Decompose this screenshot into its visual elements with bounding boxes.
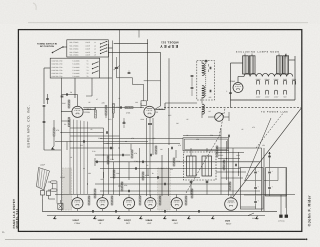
capacitor C19 [106,131,108,134]
power plug terminals [279,215,282,218]
capacitor C23 [171,147,173,150]
bottom bus 1 [42,210,277,212]
wire vertical bus x112 [112,41,114,161]
resistor R1 [53,128,55,136]
IF transformer T3 box [184,152,217,180]
driver stage box inner [184,139,227,149]
filament symbols row 2 [256,90,259,94]
wire interstage [83,107,144,109]
wire stub top [138,30,140,38]
bundle resistor R26 [68,118,70,127]
padder capacitor CP [123,122,126,124]
dashed pointer line [256,112,284,148]
tube 12SQ7 DET [123,198,134,209]
IFT T2 primary coil [202,63,204,75]
IFT T2 trimmers [209,67,211,70]
wire cluster bottom link [44,67,50,69]
capacitor C24 [235,164,237,167]
component value labels [60,97,265,181]
wire ladder h7 [100,168,240,170]
wire cap feed [269,152,271,168]
resistor R2 horizontal [125,107,133,109]
page top edge [28,22,308,24]
wire bundle from band switch [69,119,71,194]
pointer line to rectifier [232,108,302,199]
capacitor C28 [43,121,46,123]
padder resistor RP1 [51,181,58,183]
tube V2 12BA6 IF [144,106,155,117]
volume control R7 [121,182,123,191]
capacitor C14 [164,210,166,213]
filter capacitor box B2 [266,168,287,197]
capacitor C13 [115,210,117,213]
resistor R21 [216,146,218,157]
wire IFT T3 leads [190,148,192,156]
ballast resistor RB1 [243,56,249,74]
bottom bus 2 [47,215,265,217]
wire V1 top cap [77,95,79,107]
electrolytic C17 [254,187,257,189]
resistor R6 [142,172,144,180]
driver stage box outer [183,138,229,151]
electrolytic C20b [268,187,271,189]
band switch box A [67,40,109,57]
capacitor C3 [66,93,68,96]
loop trimmer capacitors [41,191,45,196]
wire ladder h2b [100,138,183,140]
tube 12SA7 CONV [72,198,83,209]
wire ladder h8 [110,177,200,179]
resistor R22 [229,182,231,190]
oscillator coil box B [50,58,99,78]
RF section box right [160,52,162,106]
wire link y128 [70,127,104,129]
wire ballast tops [244,54,246,56]
capacitor C22 [157,176,159,179]
diode tube V3 [215,113,224,122]
tuning gang shield ribbon 2 [158,168,171,210]
wire vertical bus x119 [119,30,121,196]
resistor R13 [139,196,141,205]
ground G1 [52,146,54,148]
IFT T2 secondary coil [202,86,204,98]
capacitor C26 [128,72,131,74]
capacitor C7 [96,161,98,164]
volume control switch cluster [58,203,63,209]
ballast resistor RB3 [277,56,283,74]
V2 cathode capacitor [149,117,151,122]
wire vertical bus x108 [108,44,110,194]
capacitor C10 [150,154,152,157]
dashed AVC bus [164,107,301,109]
line cord resistor coil [244,73,293,76]
wire verticals mid [103,128,105,196]
wire fil to AVC [230,100,232,108]
IFT T3 trimmers [190,181,193,183]
rectifier tube V8 [233,83,243,93]
capacitor C5 with polarity [229,92,232,94]
IFT input trimmers [191,75,194,77]
resistor R4 [113,170,115,178]
capacitor C12 [92,210,94,213]
wire ladder h10 [100,190,260,192]
junction V2 grid [140,107,141,108]
resistor R11 [94,189,96,198]
tube 50L6 OUT [171,198,182,209]
wire rails filter [261,148,263,211]
tube 12BA6 AVC [145,198,156,209]
wire diode leads [208,116,215,118]
capacitor C2 [46,98,49,100]
grid box V2 [141,101,147,106]
wire V1 grid [61,111,72,113]
grid resistor R27 [68,100,70,108]
IFT T3 secondary [202,156,212,176]
oscillator resistor R24 [113,104,115,114]
IFT T2 core [205,63,207,97]
oscillator resistor R23 [105,106,107,116]
ballast resistor RB2 [249,56,255,74]
IFT T3 primary [187,156,197,176]
plate resistor R25 [95,110,97,118]
IF transformer T2 dashed shield [197,61,215,101]
resistor R3 [107,156,109,164]
wire bus to right section [114,42,148,44]
capacitor C15 [198,210,200,213]
electrolytic C18b [254,201,257,203]
band switch contacts A [101,42,107,44]
capacitor C11 [164,183,166,186]
resistor R9 [173,158,175,166]
wire V2 plate to IFT [155,109,165,111]
wire link y121 [62,120,71,122]
band switch contacts B [93,62,99,64]
electrolytic C19b [268,171,271,173]
tube 12SK7 IF [97,198,108,209]
scan noise texture [0,0,1,1]
second IF coil L7 [202,104,204,114]
capacitor C25 [228,135,230,138]
wire IFT connections [201,61,203,64]
resistor R5 [131,150,133,158]
resistor R16 [191,189,193,198]
wire stair v113 [113,162,115,195]
resistor R12 [111,196,113,205]
wire ladder h3 [55,141,148,143]
wire ladder h3b [104,143,181,145]
IFT top cap [205,60,207,64]
capacitor C18 [83,140,85,143]
wire right rail [285,168,287,208]
capacitor C1 [43,105,46,107]
page bottom edge [5,239,95,241]
switch S1 blade [53,47,64,53]
wire box right edge down [228,151,230,196]
wire V1 plate [83,109,95,111]
pointer line mid [245,118,271,180]
schematic border frame [18,30,301,232]
detector area verticals [220,128,222,195]
pointer line to output tube [186,137,219,194]
wire filter steps [244,180,262,182]
tuning gang shield ribbon 1 [62,168,72,210]
junction dots mid [60,132,61,133]
RF section box top [108,51,161,53]
detector area horizontals [216,152,244,154]
resistor R15 [185,196,187,205]
capacitor C4 [120,106,122,109]
wire ladder h9 [95,183,230,185]
capacitor C8 [135,167,137,170]
ballast resistor RB4 [283,56,289,74]
wire ladder h4 [70,147,114,149]
bottom bus above tubes [55,194,295,196]
capacitor C6 [110,147,112,150]
wire step route [116,69,118,78]
filament symbols row 1 [256,80,259,84]
filter capacitor box B1 [241,168,264,210]
resistor R10 [88,196,90,205]
wire left column [44,149,61,151]
wire vertical drop to V2 grid [147,39,149,101]
wire pair under V2 [146,118,148,196]
wire ladder h5 [95,154,130,156]
tube 35Z5 rectifier output [225,198,238,211]
wire padder links [52,183,54,189]
loop antenna LA [37,168,50,191]
capacitor C21 [142,161,144,164]
grounds bottom [54,216,56,218]
capacitor C20 [122,154,124,157]
tube V1 12BE6 converter [72,106,83,117]
electrolytic C16 [254,171,257,173]
resistor R14 [159,196,161,205]
resistor R8 [155,146,157,154]
capacitor C27 [61,95,64,97]
capacitor C9 [128,190,130,193]
trimmer capacitor CT1 [115,67,118,69]
wire vertical x169 [168,58,170,145]
wire ladder h1 [62,132,104,134]
wire loop to bus [42,199,44,211]
junction dots det [221,152,222,153]
wire ladder h6 [95,161,260,163]
wire ladder h2 [70,135,120,137]
pilot lamp arrow [285,55,287,59]
wire filament loop [230,63,232,100]
padder resistor RP2 [51,189,58,191]
resistor R21b [223,160,225,170]
wire stubs mid [94,158,96,166]
